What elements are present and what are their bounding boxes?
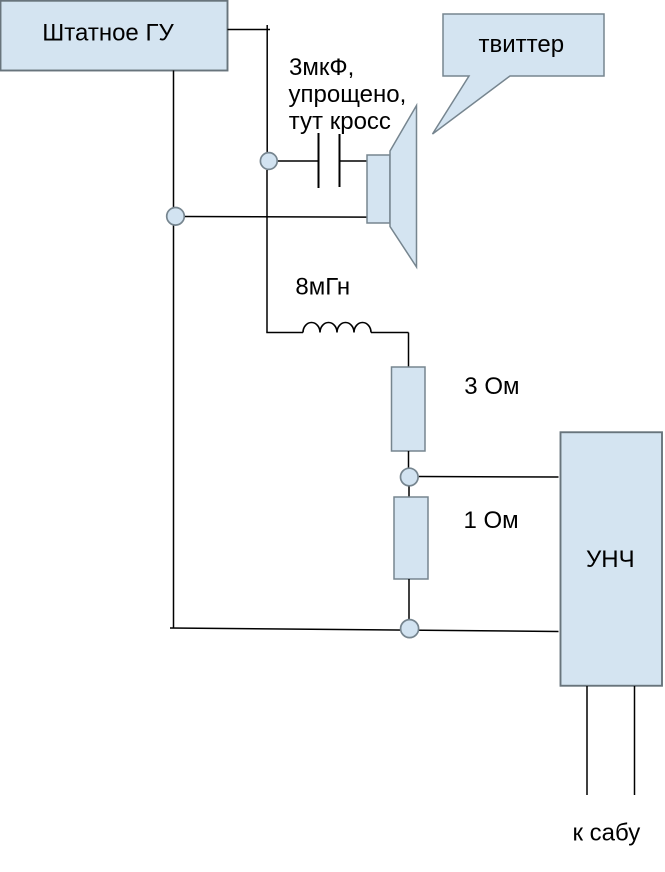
svg-text:Штатное ГУ: Штатное ГУ	[42, 20, 174, 47]
wire resistor R1 to node C	[408, 451, 410, 469]
svg-text:к сабу: к сабу	[573, 820, 641, 847]
wire node A to capacitor C1	[278, 160, 318, 162]
wire node B to tweeter (crosses vertical wire)	[185, 216, 368, 219]
svg-text:тут кросс: тут кросс	[289, 108, 391, 135]
svg-text:1 Ом: 1 Ом	[464, 507, 519, 534]
svg-text:8мГн: 8мГн	[295, 273, 350, 300]
resistor R2 body	[394, 497, 428, 579]
svg-text:3мкФ,: 3мкФ,	[289, 54, 354, 81]
svg-text:твиттер: твиттер	[479, 31, 565, 58]
node D junction on bottom wire	[401, 620, 419, 638]
wire resistor R2 to node D	[408, 579, 410, 619]
svg-text:УНЧ: УНЧ	[586, 546, 635, 573]
wire node A down to inductor	[266, 170, 268, 333]
inductor L1	[266, 323, 408, 368]
callout "твиттер"	[433, 14, 605, 134]
bottom wire left rail to amplifier	[170, 628, 559, 632]
svg-text:упрощено,: упрощено,	[289, 81, 407, 108]
amplifier box U2 "УНЧ"	[561, 432, 663, 686]
resistor R1 body	[392, 367, 426, 451]
node B junction on left rail	[167, 208, 185, 226]
wire to sub left	[586, 686, 588, 795]
wire node C to amplifier	[419, 476, 559, 479]
tweeter speaker LS1	[367, 106, 417, 268]
capacitor C1 plates	[319, 133, 340, 188]
value label "3мкФ, упрощено, тут кросс"	[289, 54, 407, 135]
wire capacitor C1 to tweeter	[340, 160, 367, 162]
wire from head unit bottom down left rail	[173, 71, 175, 629]
wire to sub right	[634, 686, 636, 795]
svg-text:3 Ом: 3 Ом	[464, 373, 519, 400]
head unit box U1 "Штатное ГУ"	[1, 1, 228, 71]
node A junction (to capacitor)	[260, 153, 277, 170]
wire node C to resistor R2	[408, 487, 410, 498]
node C junction between resistors	[401, 468, 419, 486]
wire from head unit right edge to node A vertical	[228, 29, 271, 31]
